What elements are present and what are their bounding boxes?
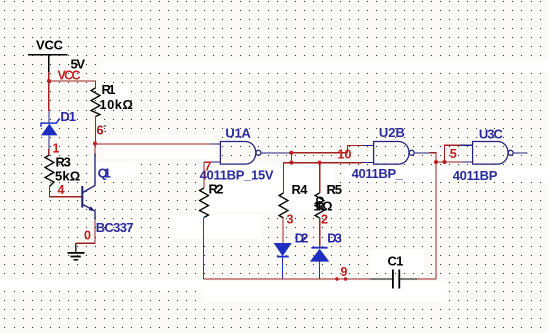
wire emitter down	[76, 219, 95, 243]
wire R1 bottom	[95, 117, 97, 144]
ground	[68, 243, 85, 260]
svg-text:VCC: VCC	[36, 38, 64, 53]
svg-text:VCC: VCC	[58, 68, 81, 82]
tick mark node 6	[104, 126, 107, 133]
svg-text:D3: D3	[327, 231, 342, 246]
svg-text:4011BP_: 4011BP_	[352, 166, 404, 181]
wire to R5	[319, 163, 321, 193]
junction	[289, 151, 293, 155]
wire U3C output	[513, 152, 527, 154]
svg-text:R5: R5	[327, 182, 343, 197]
wire R5 to D3	[319, 218, 321, 247]
svg-text:C1: C1	[388, 254, 404, 269]
wire drop to lower line	[290, 153, 292, 163]
wire node6 to U1A input A	[95, 143, 210, 145]
diode D1 (zener)	[41, 111, 60, 149]
svg-text:9: 9	[341, 265, 348, 279]
op U3C NAND gate	[473, 142, 514, 165]
op U2B NAND gate	[374, 142, 415, 165]
pin stub U1A in B	[204, 161, 220, 163]
wire U1A output	[261, 152, 289, 154]
svg-text:6: 6	[97, 124, 104, 138]
svg-text:Q1: Q1	[98, 165, 111, 180]
wire R3 to Q1 base	[50, 187, 82, 197]
wire VCC node to R1	[49, 81, 96, 88]
wire R4 to D2	[282, 218, 284, 243]
wire riser up	[435, 162, 437, 279]
wire lower line	[284, 162, 363, 164]
capacitor C1	[370, 270, 417, 289]
svg-text:4011BP: 4011BP	[453, 168, 498, 183]
junction dots on rail	[335, 277, 338, 280]
wire collector to node 6	[94, 144, 96, 154]
svg-text:4: 4	[58, 183, 65, 197]
wire U1A inB down to R2	[203, 162, 205, 188]
wire up to U2B input A	[348, 146, 363, 153]
wire VCC stem	[48, 72, 50, 81]
resistor R5	[315, 193, 324, 218]
op U1A NAND gate	[220, 142, 261, 165]
emitter arrow	[89, 206, 95, 211]
svg-text:D2: D2	[295, 231, 309, 246]
wire U2B output	[414, 152, 430, 154]
wire to R4	[283, 163, 285, 193]
svg-text:0: 0	[84, 229, 91, 243]
transistor Q1	[82, 153, 95, 219]
node 6 junction	[93, 142, 97, 146]
resistor R1	[91, 88, 100, 117]
svg-text:U3C: U3C	[479, 126, 504, 141]
svg-text:7: 7	[205, 160, 212, 174]
resistor R4	[279, 193, 288, 218]
diode D3	[310, 248, 329, 279]
wire to U3C input B	[436, 161, 462, 163]
bottom rail wire	[204, 278, 371, 280]
svg-text:10: 10	[338, 148, 352, 162]
svg-text:2: 2	[321, 213, 328, 227]
power symbol VCC	[28, 38, 67, 72]
svg-text:1: 1	[53, 141, 60, 155]
wire to U3C input A	[445, 145, 461, 162]
svg-text:3: 3	[287, 213, 294, 227]
svg-text:R3: R3	[56, 155, 71, 170]
wire D1 to R3	[48, 149, 50, 155]
diode D2	[274, 243, 292, 279]
pin stub U1A in A	[210, 143, 220, 145]
node junction VCC	[47, 79, 51, 83]
svg-text:BC337: BC337	[96, 220, 134, 235]
resistor R3	[45, 155, 54, 187]
wire C1 right to riser	[417, 278, 436, 280]
resistor R2	[200, 188, 209, 218]
svg-text:D1: D1	[60, 109, 76, 124]
white redraw patches	[0, 61, 548, 301]
wire VCC to D1	[48, 81, 50, 111]
wire R2 to rail	[203, 218, 205, 280]
svg-text:R4: R4	[292, 182, 309, 197]
svg-text:U2B: U2B	[379, 125, 405, 140]
svg-text:5kΩ: 5kΩ	[55, 168, 80, 183]
svg-text:10kΩ: 10kΩ	[99, 97, 132, 112]
svg-text:R1: R1	[102, 82, 116, 97]
svg-text:5: 5	[450, 147, 457, 161]
svg-text:R2: R2	[209, 181, 224, 196]
svg-text:U1A: U1A	[225, 125, 251, 140]
